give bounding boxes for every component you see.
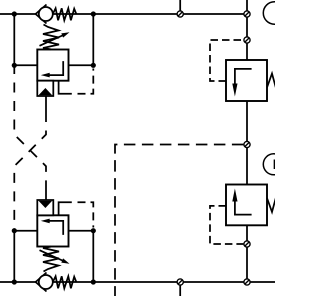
node circle N7 (244, 279, 250, 285)
spring adjustable CB1 (43, 25, 59, 50)
valve CB2 body (37, 215, 68, 246)
wire riser x=93 top (92, 14, 94, 65)
wire below valve V2 (246, 225, 248, 282)
arrowhead CB2 internal (41, 219, 50, 224)
node circle N3 (244, 37, 250, 43)
wire stub to bottom edge at x=180 (179, 282, 181, 296)
wire top rail right (53, 13, 247, 15)
wire port1 line of valve CB1 (14, 64, 37, 66)
arrowhead V2 internal (232, 189, 237, 202)
valve V1 body (226, 60, 267, 101)
pilot dashed valve V1 (210, 40, 243, 81)
wire pilot stub below CB1 pilot box (45, 96, 47, 112)
port circle top right (263, 2, 285, 24)
wire bottom rail left (0, 281, 36, 283)
valve CB2 internal arrow (50, 221, 64, 235)
node circle N4 (244, 141, 250, 147)
spring arrowhead CB2 (61, 258, 69, 263)
valve CB1 pilot box (37, 81, 53, 96)
drain dashed CB2 (78, 202, 94, 227)
node circle N6 (177, 279, 183, 285)
valve CB2 pilot box (37, 200, 53, 215)
arrowhead CB1 internal (41, 73, 50, 78)
spring adjustable CB2 (43, 247, 59, 272)
node circle N5 (244, 241, 250, 247)
wire top rail left (0, 13, 36, 15)
junction dot A (12, 11, 17, 16)
check valve CV1 seat (36, 5, 47, 24)
wire riser x=93 bottom (92, 231, 94, 282)
wire port2 line of valve CB2 (69, 230, 94, 232)
valve V2 internal arrow (235, 202, 252, 215)
pilot triangle CB2 (39, 201, 53, 208)
check valve CV1 spring (53, 8, 77, 20)
check valve CV2 seat (36, 273, 47, 292)
valve V2 body (226, 185, 267, 226)
wire port1 line of valve CB2 (14, 230, 37, 232)
junction dot G (12, 279, 17, 284)
junction dot D (91, 63, 96, 68)
pilot dashed valve V2 (210, 206, 243, 244)
port circle glyph (274, 160, 276, 170)
arrowhead V1 internal (232, 84, 237, 97)
wire left drop bottom (13, 231, 15, 282)
wire left supply drop (13, 14, 15, 65)
pilot line CB1 (dashed, from pilot stub crossing to lower-left port) (14, 112, 46, 230)
drain dashed CB1 (78, 69, 94, 94)
wire pilot stub above CB2 pilot box (45, 184, 47, 200)
pilot line CB2 (dashed, from top-left port crossing to CB2 pilot) (14, 67, 46, 184)
port circle mid right (263, 154, 284, 175)
wire vertical main line x=247 upper (246, 0, 248, 60)
wire drain stub CB1 (59, 81, 72, 94)
valve V2 spring (267, 198, 280, 212)
check valve CV2 spring (53, 276, 77, 288)
valve V1 internal arrow (235, 69, 252, 84)
check valve CV1 ball (39, 7, 53, 21)
pilot triangle CB1 (39, 88, 53, 95)
wire bottom rail right (53, 281, 275, 283)
junction dot F (91, 228, 96, 233)
node circle N2 (244, 11, 250, 17)
junction dot E (12, 228, 17, 233)
spring arrow CB2 shaft (40, 250, 64, 261)
wire port2 line of valve CB1 (69, 64, 94, 66)
junction dot B (91, 11, 96, 16)
spring arrow CB1 shaft (40, 35, 64, 46)
wire between valves V1 and V2 (246, 101, 248, 185)
valve CB1 body (37, 50, 68, 81)
node circle N1 (177, 11, 183, 17)
pilot dashed long line to bottom edge (115, 145, 243, 296)
valve CB1 internal arrow (50, 61, 64, 75)
wire drain stub CB2 (59, 202, 72, 215)
wire stub to top edge at x=180 (179, 0, 181, 14)
valve V1 spring (267, 74, 280, 88)
junction dot C (12, 63, 17, 68)
check valve CV2 ball (39, 275, 53, 289)
junction dot H (91, 279, 96, 284)
spring arrowhead CB1 (61, 32, 69, 37)
